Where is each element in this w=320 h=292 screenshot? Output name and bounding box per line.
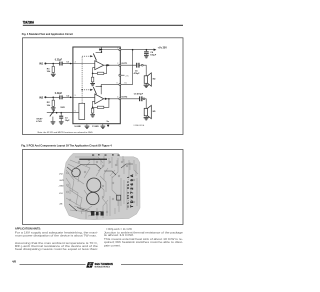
ground under R1 — [51, 74, 56, 77]
wire fb riser — [104, 65, 107, 73]
node mute2 — [101, 86, 102, 87]
pin 1 circle — [119, 49, 121, 51]
svg-text:-SVR: -SVR — [59, 180, 64, 182]
ST logo mark — [86, 262, 94, 268]
header title TDA7269A — [23, 21, 34, 25]
IC U1 outline — [73, 47, 120, 124]
svg-text:10µF: 10µF — [65, 120, 71, 122]
IC bottom pin PW-GND — [102, 124, 104, 126]
block ST-BY/MUTE — [79, 103, 85, 119]
svg-text:+Vs: +Vs — [125, 75, 128, 77]
op-amp A1 — [95, 61, 104, 70]
wire mute1 vertical to A1 — [95, 60, 97, 61]
svg-text:1: 1 — [117, 48, 118, 50]
ground C4 — [144, 55, 149, 58]
wire A1 output — [104, 64, 120, 66]
component circle cap C6 — [87, 192, 99, 204]
caption figure 4 — [22, 32, 73, 36]
ground under C3 — [59, 121, 64, 124]
node rail C4 — [146, 49, 148, 51]
svg-text:pate current.: pate current. — [104, 243, 121, 247]
svg-text:-Vs: -Vs — [106, 121, 110, 123]
ground PW-GND — [101, 126, 106, 129]
node riser2 top — [108, 98, 110, 100]
wire R2 drop — [52, 97, 54, 100]
capacitor C5 plates — [136, 63, 139, 68]
svg-text:Note: the ST-BY and MUTE funct: Note: the ST-BY and MUTE functions are r… — [38, 131, 94, 134]
arrow on A2 output — [105, 98, 108, 100]
wire Rg1 to ground — [92, 82, 94, 83]
svg-text:R1: R1 — [47, 68, 51, 70]
svg-text:10k: 10k — [47, 105, 51, 107]
node IN2 terminal — [44, 96, 46, 98]
arrow +Vs — [154, 49, 157, 51]
ground under R2 — [51, 107, 56, 110]
pin 2 OUT1 circle — [119, 64, 121, 66]
capacitor C4 plates — [144, 51, 149, 54]
arrow on rail — [99, 48, 102, 50]
svg-text:3: 3 — [116, 82, 117, 84]
node IN1 terminal — [44, 63, 46, 65]
node A2 fb junction — [92, 107, 94, 109]
node dashed cross — [81, 89, 82, 90]
left column paragraph 2 — [15, 241, 99, 251]
wire speaker1 to ground — [145, 83, 147, 84]
node terminal OUT2 — [143, 98, 145, 100]
wire C1 to IC pin — [63, 63, 73, 65]
svg-text:+Vs: +Vs — [124, 82, 127, 84]
svg-text:4: 4 — [117, 97, 118, 99]
wire mute2 dashed — [82, 89, 90, 91]
wire Rg2 to ground — [92, 113, 94, 114]
footer rule left — [20, 263, 86, 266]
node pin dot 2 — [70, 97, 72, 99]
wire mute1 dashed — [82, 55, 90, 57]
svg-text:mum power dissipation of the d: mum power dissipation of the device is a… — [15, 233, 97, 237]
figure 5 frame — [23, 150, 184, 225]
wire top pin riser — [101, 47, 103, 53]
ground Rg1 — [90, 83, 95, 86]
wire terminal to speaker — [143, 65, 146, 76]
capacitor C3 plates — [59, 116, 63, 119]
PCB silkscreen vertical text — [126, 174, 134, 207]
svg-text:OUT1: OUT1 — [121, 63, 128, 65]
node junction IN1/R1 — [52, 63, 54, 65]
ground S-GND — [85, 126, 90, 129]
arrow mute2 — [90, 89, 93, 91]
wire C4 drop — [145, 50, 147, 52]
wire OUT1 — [121, 64, 136, 66]
resistor R2 10k — [52, 100, 54, 106]
wire C3 to ground — [60, 119, 62, 122]
wire R2 to ground — [52, 106, 54, 107]
wire control dashed vertical — [81, 56, 83, 103]
wire C4 to ground — [145, 53, 147, 56]
left column paragraph 1 — [15, 231, 98, 238]
capacitor C1 plates — [59, 62, 62, 66]
wire fb2 left — [93, 106, 98, 108]
resistor Rf2 horizontal — [97, 106, 103, 108]
ground speaker1 — [144, 85, 149, 88]
pin 3 circle — [119, 83, 121, 85]
node junction C3 — [60, 112, 62, 114]
IC bottom pin S-GND — [86, 124, 88, 126]
wire mute2 vertical to A2 — [95, 94, 97, 96]
svg-text:IN2: IN2 — [39, 96, 44, 100]
svg-text:0.22µF: 0.22µF — [55, 93, 63, 95]
capacitor C2 plates — [59, 95, 62, 99]
switch contact dot — [52, 112, 53, 113]
node rail/riser — [101, 49, 102, 50]
switch mute1 lever — [93, 53, 96, 60]
svg-text:IN1: IN1 — [39, 62, 44, 66]
arrow mute1 — [90, 55, 93, 57]
svg-text:R2: R2 — [47, 102, 51, 104]
footer rule right — [121, 263, 183, 266]
figure 4 frame — [23, 38, 184, 135]
wire switch to ground — [52, 117, 54, 122]
resistor Rg1 vertical — [91, 77, 93, 82]
svg-text:CS-051 REV.1: CS-051 REV.1 — [126, 176, 130, 207]
wire mute2 to pin3 — [101, 84, 120, 86]
wire A2 minus input — [93, 101, 95, 107]
wire pin5 stub — [121, 74, 125, 76]
pin 5th circle — [119, 74, 121, 76]
svg-text:OUT2: OUT2 — [121, 97, 128, 99]
svg-text:Fig. 5 PCB And Components Layo: Fig. 5 PCB And Components Layout Of The … — [21, 144, 112, 148]
svg-text:SVR: SVR — [60, 107, 65, 109]
svg-text:-SB: -SB — [59, 204, 63, 206]
wire Rg1 drop — [92, 73, 94, 77]
svg-text:4: 4 — [75, 61, 76, 63]
wire OUT2 — [121, 98, 139, 100]
wire A2 output — [104, 98, 120, 100]
wire mute1 corner — [96, 52, 102, 54]
right column paragraph 1 — [104, 230, 184, 237]
component rect right — [117, 195, 121, 200]
note line inside figure — [38, 131, 94, 134]
wire mute2 corner — [96, 86, 102, 94]
node rail pin3 riser — [132, 49, 134, 51]
capacitor C6 plates — [139, 96, 142, 101]
arrow on A1 output — [107, 64, 110, 66]
wire A1 minus input — [93, 68, 95, 74]
wire pin3 to +Vs rail — [121, 51, 133, 85]
node A1 fb junction — [92, 73, 94, 75]
svg-text:-IN1: -IN1 — [59, 193, 64, 195]
caption figure 5 — [21, 144, 112, 148]
svg-text:P-GND: P-GND — [92, 126, 99, 128]
wire C5 to terminal — [140, 64, 142, 66]
wire A2 plus input — [73, 96, 95, 98]
svg-text:0.22µF: 0.22µF — [55, 59, 63, 61]
wire +Vs rail external — [121, 49, 154, 51]
wire Rg2 drop — [92, 107, 94, 108]
svg-text:C6 470µF: C6 470µF — [134, 92, 144, 95]
svg-text:8Ω: 8Ω — [153, 110, 156, 113]
svg-text:C5: C5 — [135, 70, 139, 72]
ground under switch — [51, 121, 56, 124]
PCB pads — [67, 159, 135, 215]
node terminal OUT1 — [141, 64, 143, 66]
svg-text:8Ω: 8Ω — [153, 77, 156, 80]
PCB dark component outlines — [67, 164, 133, 212]
speaker LS2 — [144, 105, 151, 118]
op-amp A2 — [95, 94, 104, 104]
svg-text:9: 9 — [75, 95, 76, 97]
node junction IN2/R2 — [52, 97, 54, 99]
svg-text:4/8: 4/8 — [12, 260, 16, 264]
svg-text:4.7kΩ: 4.7kΩ — [36, 120, 42, 123]
svg-text:2: 2 — [117, 63, 118, 65]
wire internal +Vs rail — [99, 49, 120, 51]
PCB traces — [66, 156, 138, 219]
header rule — [23, 25, 183, 26]
wire R1 to ground — [52, 73, 54, 74]
svg-text:100µF: 100µF — [150, 55, 157, 57]
switch mute2 lever — [93, 87, 96, 94]
component outline top bar — [79, 159, 107, 160]
wire C3 drop — [60, 113, 62, 116]
svg-text:470µF: 470µF — [134, 72, 141, 75]
svg-text:D98AU805A: D98AU805A — [134, 124, 145, 127]
svg-text:TDA7269A: TDA7269A — [23, 21, 34, 25]
PCB top specks — [92, 154, 120, 155]
svg-text:Fig. 4 Standard Test and Appli: Fig. 4 Standard Test and Application Cir… — [22, 32, 73, 36]
wire speaker2 to ground — [145, 116, 147, 117]
right column paragraph 2 — [104, 237, 183, 247]
PCB bottom dark marks — [91, 211, 104, 216]
svg-text:C3: C3 — [65, 117, 69, 119]
svg-text:C4: C4 — [150, 51, 154, 54]
resistor R1 10k — [52, 66, 54, 72]
wire IN1 to C1 — [45, 63, 59, 65]
wire C6 to terminal — [141, 98, 144, 100]
node riser top — [106, 64, 108, 66]
PCB board blob — [64, 154, 140, 220]
node top riser — [101, 51, 102, 52]
svg-text:heat dissipating means must be: heat dissipating means must be equal or … — [15, 247, 98, 251]
svg-text:MICROELECTRONICS: MICROELECTRONICS — [95, 266, 111, 268]
wire ST-BY row — [47, 112, 73, 114]
svg-text:S-GND: S-GND — [74, 126, 81, 128]
resistor Rf1 horizontal — [97, 72, 103, 74]
wire fb left — [93, 72, 98, 74]
heading APPLICATION HINTS — [15, 227, 41, 231]
svg-text:-IN2: -IN2 — [59, 174, 64, 176]
svg-text:10k: 10k — [47, 71, 51, 73]
component circle cap C5 — [87, 178, 101, 192]
wire fb2 riser — [104, 99, 109, 108]
speaker LS1 — [144, 73, 151, 86]
wire terminal2 to speaker — [145, 99, 146, 109]
resistor Rg2 vertical — [91, 108, 93, 113]
wire R1 drop — [52, 64, 54, 67]
switch SW1 lever — [50, 110, 55, 117]
svg-text:+Vs 25V: +Vs 25V — [158, 46, 168, 49]
svg-text:-GND: -GND — [59, 185, 65, 187]
svg-text:5: 5 — [75, 111, 76, 113]
component circle cap small — [72, 168, 81, 177]
pin -Vs stub and arrow — [107, 124, 109, 125]
wire A1 plus input — [73, 63, 95, 65]
wire IN2 to C2 — [45, 96, 59, 98]
ground Rg2 — [90, 114, 95, 117]
node pin dot — [70, 63, 72, 65]
pin 4 OUT2 circle — [119, 98, 121, 100]
ground speaker2 — [144, 117, 149, 120]
wire stby pin to block — [73, 112, 79, 114]
wire C2 to IC pin — [63, 96, 73, 98]
node junction stby — [56, 112, 58, 114]
